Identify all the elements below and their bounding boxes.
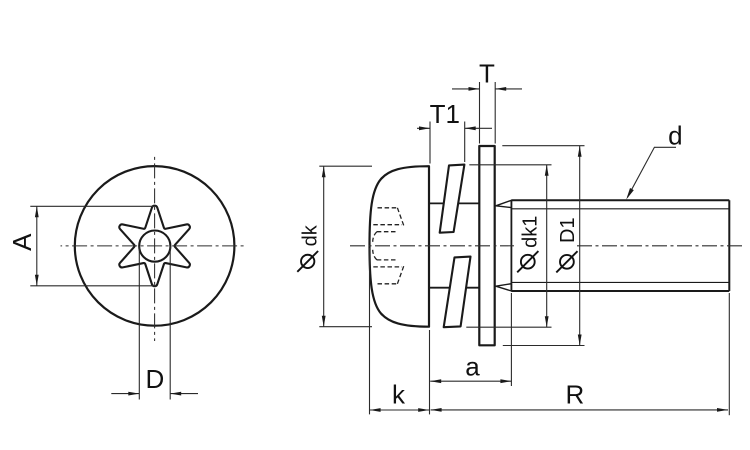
svg-text:k: k <box>392 380 406 410</box>
svg-text:R: R <box>566 380 585 410</box>
svg-text:T: T <box>479 58 495 88</box>
svg-text:D1: D1 <box>557 217 579 243</box>
svg-text:a: a <box>465 352 480 382</box>
svg-text:dk: dk <box>300 224 322 246</box>
svg-text:d: d <box>668 120 682 150</box>
svg-text:T1: T1 <box>430 99 460 129</box>
svg-text:A: A <box>7 233 37 251</box>
svg-text:dk1: dk1 <box>520 216 542 248</box>
svg-text:D: D <box>146 364 165 394</box>
